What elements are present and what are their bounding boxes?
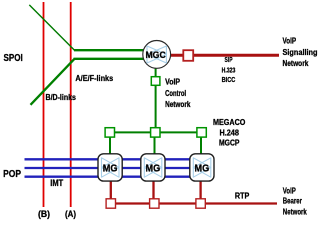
svg-text:Signalling: Signalling [283,48,318,57]
svg-text:SPOI: SPOI [4,53,23,64]
svg-text:MGCP: MGCP [219,139,240,148]
svg-text:Control: Control [165,89,186,98]
svg-text:IMT: IMT [50,178,63,188]
svg-text:BICC: BICC [222,75,236,84]
svg-text:Network: Network [165,100,191,109]
svg-text:RTP: RTP [235,191,250,201]
svg-text:MEGACO: MEGACO [213,118,245,127]
svg-text:Network: Network [283,208,307,217]
svg-text:POP: POP [3,169,21,180]
svg-text:B/D-links: B/D-links [46,93,77,102]
svg-text:H.323: H.323 [222,65,236,74]
svg-text:Bearer: Bearer [283,197,302,206]
svg-text:MG: MG [103,163,118,174]
svg-text:H.248: H.248 [219,128,239,137]
svg-text:MGC: MGC [145,50,166,60]
svg-text:SIP: SIP [225,55,233,64]
svg-text:A/E/F-links: A/E/F-links [75,74,113,83]
svg-text:(A): (A) [65,209,76,220]
svg-text:Network: Network [283,59,309,68]
svg-text:VoIP: VoIP [283,36,297,45]
svg-text:MG: MG [146,163,161,174]
svg-text:VoIP: VoIP [165,78,180,87]
svg-text:(B): (B) [38,209,50,220]
svg-text:VoIP: VoIP [283,186,297,195]
svg-text:MG: MG [195,163,210,174]
